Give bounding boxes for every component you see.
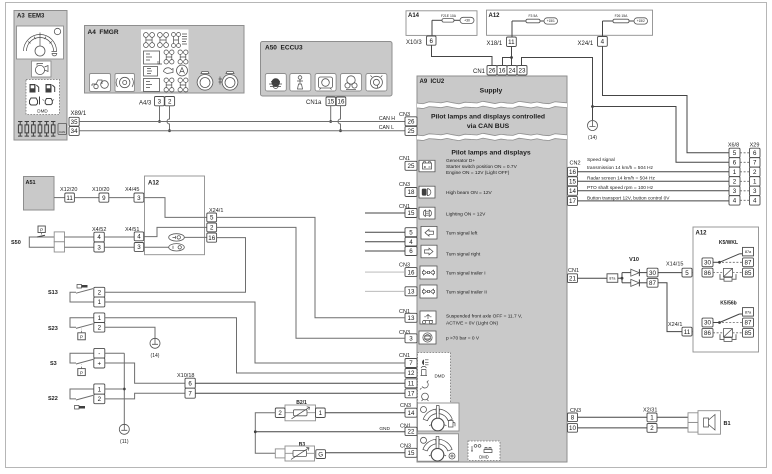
wire X2/31 to B1 (657, 416, 688, 418)
svg-text:A14: A14 (408, 13, 420, 19)
svg-text:X4/45: X4/45 (125, 187, 139, 193)
svg-text:15: 15 (408, 210, 415, 217)
pin 7 (185, 388, 195, 398)
switch S22 (48, 389, 94, 409)
module A50 ECCU3 (261, 42, 393, 97)
svg-text:Generator D+: Generator D+ (446, 158, 475, 164)
pin 22 (405, 427, 417, 435)
junction (510, 56, 513, 59)
svg-text:3: 3 (733, 188, 737, 195)
fuse F21E 10A (432, 14, 460, 22)
svg-text:1: 1 (98, 315, 102, 322)
svg-text:+: + (97, 360, 101, 367)
supply +30 (460, 17, 474, 23)
pin 25 (405, 126, 417, 135)
svg-text:3: 3 (158, 98, 162, 105)
X6/8 pin 2 (729, 177, 740, 186)
X29 pin 7 (750, 158, 761, 167)
pin 17 (405, 389, 417, 398)
pin 3 (155, 97, 165, 106)
wire X24/1 pin11 to relay K5/56b 86 (692, 331, 702, 333)
svg-text:7: 7 (188, 390, 192, 397)
svg-text:3: 3 (753, 188, 757, 195)
pin 5 (682, 268, 692, 277)
svg-text:5: 5 (210, 215, 214, 222)
svg-text:16: 16 (338, 99, 345, 106)
module A51 (24, 177, 55, 211)
pin 1 (94, 384, 105, 394)
pin 17 (568, 196, 578, 205)
svg-text:Speed signal: Speed signal (587, 157, 615, 163)
wire X4/51 pin4 to X24/1 pin2 inside A12 (144, 227, 207, 236)
svg-text:transmission 14 km/h = 504 Hz: transmission 14 km/h = 504 Hz (587, 165, 654, 171)
svg-text:15: 15 (327, 99, 334, 106)
svg-text:Pilot lamps and displays contr: Pilot lamps and displays controlled (431, 114, 545, 121)
svg-text:A3 EEM3: A3 EEM3 (17, 14, 45, 20)
svg-text:Turn signal right: Turn signal right (446, 252, 481, 258)
svg-text:2: 2 (98, 289, 102, 296)
svg-text:via CAN BUS: via CAN BUS (467, 123, 510, 130)
svg-text:Turn signal left: Turn signal left (446, 231, 478, 237)
svg-text:GND: GND (379, 426, 390, 432)
svg-text:A9 ICU2: A9 ICU2 (420, 79, 445, 85)
svg-text:1: 1 (319, 410, 323, 417)
svg-text:87a: 87a (745, 310, 752, 314)
pin 35 (69, 117, 79, 126)
svg-text:P: P (80, 370, 83, 375)
svg-text:Lighting ON = 12V: Lighting ON = 12V (446, 212, 486, 218)
wire X24/1 pin5 to CN1 pin13 (217, 217, 405, 317)
pin 2 (94, 287, 105, 297)
pin 30 (647, 268, 658, 277)
wire X10/20 to X4/45 (109, 197, 134, 199)
pin 3 (94, 242, 104, 252)
wire X14/15 pin5 to relay K5/WKL 86 (692, 272, 702, 274)
switch S3 (50, 353, 94, 375)
svg-text:86: 86 (704, 270, 711, 277)
svg-text:4: 4 (409, 239, 413, 246)
svg-text:7: 7 (753, 160, 757, 167)
svg-text:6: 6 (753, 150, 757, 157)
S50 connector blocks (54, 232, 64, 252)
pin 1 (647, 413, 657, 422)
svg-text:12: 12 (408, 370, 415, 377)
X6/8 pin 4 (729, 196, 740, 205)
svg-text:2: 2 (98, 396, 102, 403)
wire CN2 16 to X6/8 1 (578, 171, 730, 173)
wire V10 30 to X14/15 pin5 (658, 272, 682, 274)
wire CAN L (79, 130, 405, 132)
pin 1 (94, 297, 105, 307)
svg-text:+30: +30 (464, 19, 470, 23)
section pilot lamps via CAN BUS (431, 114, 545, 131)
wire CN2 17 to X6/8 4 (578, 200, 730, 202)
wire A51 to X12/20 (54, 197, 65, 199)
svg-text:15: 15 (569, 179, 576, 186)
svg-text:11: 11 (66, 195, 73, 202)
pin 14 (568, 186, 578, 195)
pin 2 (647, 424, 657, 433)
svg-text:DMD: DMD (37, 109, 48, 114)
pin 11 (405, 379, 417, 388)
svg-text:High beam ON = 12V: High beam ON = 12V (446, 190, 493, 196)
pin 6 (405, 247, 417, 256)
svg-text:X29: X29 (750, 143, 760, 149)
svg-text:86: 86 (704, 330, 711, 337)
X6/8 pin 5 (729, 148, 740, 157)
relay contact (713, 314, 743, 324)
pin 2 (275, 408, 285, 418)
wire S3 plus to X10/18 pin6 (105, 363, 185, 383)
svg-text:15: 15 (408, 450, 415, 457)
wire CN1 pin23 to ground junction (522, 58, 593, 107)
wire ground drop (592, 107, 594, 121)
pin G (316, 450, 326, 459)
pin 5 (405, 228, 417, 237)
pin 85 (743, 328, 754, 337)
svg-text:85: 85 (745, 330, 752, 337)
svg-text:K5/56b: K5/56b (720, 300, 736, 306)
pin 26 (487, 66, 497, 76)
connector X89/1 (71, 111, 87, 117)
svg-text:30: 30 (704, 260, 711, 267)
svg-text:CAN H: CAN H (379, 116, 395, 122)
svg-text:11: 11 (684, 329, 691, 336)
wire S23 pin1 to CN1 pin12 (105, 318, 405, 373)
wire X10/3 pin6 to CN1 pin26 (432, 45, 493, 65)
svg-text:87: 87 (745, 320, 752, 327)
svg-text:Suspended front axle OFF = 11.: Suspended front axle OFF = 11.7 V, (446, 314, 522, 320)
switch S23 (48, 318, 94, 340)
svg-text:87a: 87a (745, 250, 752, 254)
pin 16 (207, 233, 217, 242)
ground (11) (119, 424, 129, 445)
svg-text:17: 17 (569, 198, 576, 205)
svg-text:4: 4 (753, 198, 757, 205)
svg-text:34: 34 (71, 128, 78, 135)
turn signal trailer I icon (420, 266, 437, 279)
svg-text:16: 16 (569, 169, 576, 176)
pin 16 (497, 66, 507, 76)
lighting icon (419, 207, 435, 219)
X29 pin 6 (750, 148, 761, 157)
svg-text:Starter switch position ON = 0: Starter switch position ON = 0.7V (446, 164, 518, 170)
pin 86 (702, 328, 713, 337)
pin 23 (517, 66, 527, 76)
svg-text:1: 1 (98, 386, 102, 393)
wire fuse F26 to X24/1 pin 4 (602, 21, 604, 37)
sensor B3 (285, 442, 315, 461)
svg-text:V10: V10 (629, 257, 639, 263)
svg-text:4: 4 (601, 39, 605, 46)
svg-text:16: 16 (208, 235, 215, 242)
fuel gauge icon (418, 403, 460, 431)
svg-text:CN1: CN1 (568, 268, 579, 274)
ground (14) (588, 121, 598, 142)
svg-text:CN1: CN1 (473, 69, 486, 75)
high beam icon (419, 186, 435, 198)
ground (14) (150, 338, 160, 359)
wire X24/1 pin4 to X6/8 pin 5 (603, 46, 730, 153)
svg-text:Button transport 12V, button c: Button transport 12V, button control 0V (587, 195, 670, 201)
pin 12 (405, 369, 417, 378)
svg-text:+15/1: +15/1 (547, 19, 555, 23)
pin 3 (405, 334, 417, 343)
svg-text:87: 87 (745, 260, 752, 267)
suspended axle icon (420, 311, 436, 324)
label generator (446, 158, 518, 176)
X6/8 pin 1 (729, 167, 740, 176)
svg-text:5: 5 (685, 270, 689, 277)
wire CN2 15 to X6/8 2 (578, 180, 730, 182)
wire S3 minus to ground bus (105, 352, 125, 354)
svg-text:P: P (80, 335, 83, 340)
pin 3 (134, 193, 144, 202)
pin 4 (134, 232, 144, 241)
pin 2 (94, 394, 105, 404)
pin 11 (682, 327, 692, 336)
svg-text:11: 11 (508, 39, 515, 46)
label suspended axle (446, 314, 522, 327)
svg-text:18: 18 (408, 189, 415, 196)
pin 15 (326, 97, 336, 106)
svg-text:1: 1 (98, 299, 102, 306)
svg-text:30: 30 (704, 320, 711, 327)
svg-text:G: G (318, 451, 323, 458)
svg-text:Supply: Supply (480, 88, 503, 95)
svg-text:(14): (14) (151, 353, 160, 359)
junction (123, 388, 126, 391)
svg-text:13: 13 (408, 315, 415, 322)
pin 2 (165, 97, 175, 106)
pin 8 (568, 413, 578, 422)
pin 11 (507, 37, 517, 47)
pin 15 (568, 177, 578, 186)
pin 3 (134, 243, 144, 252)
junction (621, 277, 624, 280)
indicator oval p (169, 244, 185, 251)
wire CN1 21 to node 87a (578, 277, 608, 279)
supply +15/1 (544, 18, 558, 24)
svg-text:4: 4 (97, 234, 101, 241)
module A12 fuse box (487, 10, 653, 35)
pin 18 (405, 188, 417, 197)
svg-text:2: 2 (650, 425, 654, 432)
svg-text:Turn signal trailer I: Turn signal trailer I (446, 271, 486, 277)
svg-text:10: 10 (569, 425, 576, 432)
svg-text:F3 5A: F3 5A (528, 14, 538, 18)
svg-text:16: 16 (408, 269, 415, 276)
pin 16 (405, 268, 417, 277)
diode pack V10 (622, 257, 647, 286)
pin 7 (405, 359, 417, 368)
pin 86 (702, 268, 713, 277)
module A9 ICU2 (417, 76, 567, 462)
svg-text:5: 5 (409, 229, 413, 236)
svg-text:(14): (14) (588, 135, 597, 141)
svg-text:DMD: DMD (479, 455, 489, 460)
pin 87a (743, 308, 754, 317)
junction (591, 105, 594, 108)
pin 34 (69, 127, 79, 136)
svg-text:(11): (11) (120, 439, 129, 445)
wire CAN H (79, 121, 405, 123)
relay contact (713, 254, 743, 264)
pin 4 (94, 232, 104, 242)
pin 30 (702, 318, 713, 327)
pin - (94, 348, 105, 358)
wire CN1a pin15 to CAN H (330, 106, 332, 122)
generator pilot lamp icon (419, 160, 435, 172)
DMD group box (418, 353, 451, 404)
svg-text:X12/20: X12/20 (60, 187, 77, 193)
wire stub pin 13 (365, 290, 405, 292)
svg-text:30: 30 (649, 270, 656, 277)
pin 13 (405, 287, 417, 296)
pin 87 (647, 278, 658, 287)
svg-text:+15/2: +15/2 (637, 19, 645, 23)
wire X10/18 pin7 to CN1 pin17 (195, 392, 405, 394)
pin 2 (207, 223, 217, 232)
wire stub pin 4 (365, 241, 405, 243)
pin 10 (568, 424, 578, 433)
svg-text:F21E 10A: F21E 10A (441, 14, 457, 18)
module A14 fuse box (406, 11, 477, 36)
pin 85 (743, 268, 754, 277)
wire V10 87 to X24/1 pin11 (658, 283, 682, 332)
svg-text:DMD: DMD (435, 374, 446, 379)
svg-text:ACTIVE = 0V (Light ON): ACTIVE = 0V (Light ON) (446, 321, 499, 327)
svg-text:22: 22 (408, 429, 415, 436)
torn edge (417, 101, 567, 108)
svg-text:X14/15: X14/15 (666, 262, 683, 268)
svg-text:X89/1: X89/1 (71, 111, 87, 117)
svg-text:87: 87 (649, 280, 656, 287)
fuse F3 5A (512, 14, 544, 23)
buzzer B1 (688, 411, 731, 435)
svg-text:2: 2 (168, 98, 172, 105)
svg-text:PTO shaft speed rpm = 100 Hz: PTO shaft speed rpm = 100 Hz (587, 185, 654, 191)
X6/8 pin 6 (729, 158, 740, 167)
svg-text:2: 2 (753, 169, 757, 176)
svg-text:K5/WKL: K5/WKL (719, 240, 738, 246)
svg-text:2: 2 (278, 410, 282, 417)
wire fuse to X10/3 pin 6 (431, 20, 433, 36)
svg-text:A12: A12 (148, 181, 160, 187)
svg-text:3: 3 (137, 195, 141, 202)
pin 5 (207, 213, 217, 222)
X6/8 pin 3 (729, 186, 740, 195)
svg-text:X18/1: X18/1 (487, 41, 503, 47)
svg-text:3: 3 (409, 336, 413, 343)
ground bus wire (123, 353, 125, 424)
svg-text:4: 4 (733, 198, 737, 205)
pin 13 (405, 313, 417, 322)
wire CN2 14 to X6/8 3 (578, 190, 730, 192)
dashed links X6/8 to X29 (740, 153, 750, 201)
pin 15 (405, 448, 417, 457)
B3 connector block (275, 449, 285, 458)
pin 26 (405, 117, 417, 126)
pin 6 (185, 378, 195, 388)
svg-text:26: 26 (489, 67, 496, 74)
svg-text:CN1a: CN1a (306, 100, 322, 106)
svg-text:6: 6 (733, 160, 737, 167)
svg-text:14: 14 (408, 410, 415, 417)
X29 pin 4 (750, 196, 761, 205)
X29 pin 3 (750, 186, 761, 195)
pin 87 (743, 258, 754, 267)
svg-text:11: 11 (408, 381, 415, 388)
wire S13 pin2 to X24/1 pin16 (105, 238, 246, 293)
pin 1 (94, 313, 105, 323)
wire stub pin 5 (365, 231, 405, 233)
svg-text:A4 FMGR: A4 FMGR (88, 29, 119, 36)
svg-text:21: 21 (569, 275, 576, 282)
pin 4 (405, 237, 417, 246)
pin 11 (65, 193, 75, 202)
svg-text:85: 85 (745, 270, 752, 277)
svg-text:3: 3 (137, 244, 141, 251)
wire A4/3 pin2 to CAN L with hop (167, 106, 170, 131)
svg-text:P: P (40, 227, 43, 232)
svg-text:6: 6 (188, 380, 192, 387)
X29 pin 1 (750, 177, 761, 186)
pin 15 (405, 209, 417, 218)
svg-text:X10/3: X10/3 (406, 40, 422, 46)
module A12 right (693, 227, 759, 352)
svg-text:S23: S23 (48, 326, 58, 332)
svg-text:S50: S50 (11, 240, 21, 246)
svg-text:25: 25 (408, 163, 415, 170)
wire X4/52 to X4/51 (104, 236, 134, 238)
relay coil (713, 329, 743, 342)
wire stub pin 6 (365, 250, 405, 252)
svg-text:X6/8: X6/8 (728, 143, 739, 149)
pin 87a (743, 247, 754, 256)
svg-text:A50 ECCU3: A50 ECCU3 (265, 45, 303, 52)
svg-text:6: 6 (409, 248, 413, 255)
temperature gauge icon (418, 434, 459, 461)
svg-text:24: 24 (509, 67, 516, 74)
switch S13 (48, 285, 94, 303)
svg-text:8: 8 (571, 415, 575, 422)
svg-text:Turn signal trailer II: Turn signal trailer II (446, 290, 487, 296)
turn signal left icon (421, 226, 437, 239)
pin 21 (568, 274, 578, 283)
wire X18/1 pin11 to CN1 pins 16 and 24 (511, 47, 513, 66)
wire X12/20 to X10/20 (74, 197, 99, 199)
svg-text:-: - (98, 350, 100, 357)
svg-text:CN2: CN2 (570, 161, 581, 167)
wire junction to X6/8 pin 6 (593, 107, 730, 163)
pin 4 (598, 37, 608, 47)
svg-text:X24/1: X24/1 (668, 322, 682, 328)
wire CN3 8 to X2/31 pin1 (578, 416, 648, 418)
svg-text:A12: A12 (489, 13, 501, 19)
svg-text:A12: A12 (696, 231, 708, 237)
fuse F26 15A (603, 14, 635, 23)
svg-text:X10/20: X10/20 (92, 187, 109, 193)
wire fuse F3 to X18/1 pin 11 (511, 21, 513, 37)
svg-text:CAN L: CAN L (379, 125, 394, 131)
wire B3 G to CN3 pin15 (326, 452, 406, 454)
svg-text:13: 13 (408, 289, 415, 296)
pin 87 (743, 318, 754, 327)
module A4 FMGR (85, 26, 245, 94)
wire S23 pin2 to ground (105, 327, 155, 338)
sensor B2/1 (285, 400, 316, 421)
